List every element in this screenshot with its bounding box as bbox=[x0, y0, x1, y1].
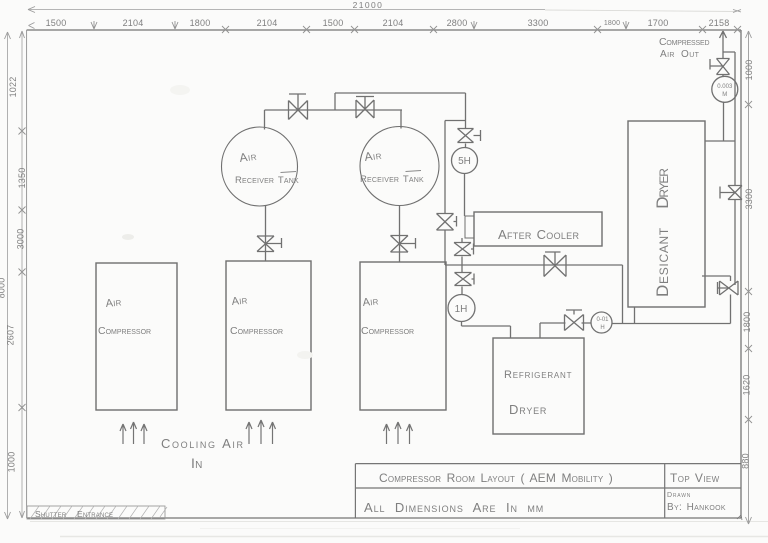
svg-text:1000: 1000 bbox=[744, 60, 754, 81]
svg-text:Air: Air bbox=[363, 148, 382, 164]
svg-text:Air Out: Air Out bbox=[660, 49, 700, 60]
svg-text:By: Hankook: By: Hankook bbox=[667, 502, 726, 513]
svg-text:Dryer: Dryer bbox=[653, 168, 672, 209]
svg-text:1H: 1H bbox=[455, 304, 468, 315]
svg-text:2800: 2800 bbox=[447, 18, 468, 28]
svg-text:1700: 1700 bbox=[648, 18, 669, 28]
svg-text:880: 880 bbox=[741, 453, 751, 469]
svg-text:Drawn: Drawn bbox=[667, 492, 691, 499]
svg-text:After Cooler: After Cooler bbox=[498, 227, 579, 242]
svg-text:3300: 3300 bbox=[744, 189, 754, 210]
svg-text:Air: Air bbox=[105, 296, 122, 310]
svg-text:Compressor: Compressor bbox=[98, 325, 151, 337]
svg-text:1500: 1500 bbox=[46, 18, 67, 28]
svg-text:Desicant: Desicant bbox=[653, 227, 672, 297]
svg-text:2104: 2104 bbox=[257, 18, 278, 28]
svg-text:2607: 2607 bbox=[6, 325, 16, 346]
svg-text:Compressed: Compressed bbox=[659, 36, 709, 48]
svg-text:8000: 8000 bbox=[0, 278, 7, 299]
svg-text:2104: 2104 bbox=[383, 18, 404, 28]
svg-text:Air: Air bbox=[238, 149, 257, 165]
svg-text:2104: 2104 bbox=[123, 18, 144, 28]
svg-text:Receiver Tank: Receiver Tank bbox=[235, 175, 299, 186]
svg-text:1620: 1620 bbox=[742, 375, 752, 396]
svg-text:Air: Air bbox=[231, 294, 248, 308]
svg-text:Refrigerant: Refrigerant bbox=[504, 369, 572, 381]
svg-text:0-01: 0-01 bbox=[596, 317, 609, 323]
svg-text:Cooling Air: Cooling Air bbox=[161, 436, 245, 451]
svg-text:Top View: Top View bbox=[670, 471, 720, 485]
svg-text:0.003: 0.003 bbox=[717, 84, 733, 90]
svg-text:In: In bbox=[191, 455, 203, 471]
svg-text:1000: 1000 bbox=[7, 452, 17, 473]
svg-text:21000: 21000 bbox=[353, 0, 384, 10]
svg-text:Receiver Tank: Receiver Tank bbox=[360, 174, 424, 185]
svg-text:2158: 2158 bbox=[709, 18, 730, 28]
svg-text:3300: 3300 bbox=[528, 18, 549, 28]
svg-text:Air: Air bbox=[362, 295, 379, 309]
svg-text:1350: 1350 bbox=[17, 168, 27, 189]
svg-text:Compressor: Compressor bbox=[230, 325, 283, 337]
svg-text:Shutter Entrance: Shutter Entrance bbox=[35, 509, 113, 519]
svg-text:3000: 3000 bbox=[16, 229, 26, 250]
svg-text:M: M bbox=[722, 92, 727, 98]
svg-text:5H: 5H bbox=[458, 156, 471, 167]
svg-text:H: H bbox=[600, 325, 604, 331]
svg-text:1800: 1800 bbox=[190, 18, 211, 28]
svg-text:1022: 1022 bbox=[8, 77, 18, 98]
svg-text:1800: 1800 bbox=[742, 312, 752, 333]
svg-text:Compressor Room Layout ( AEM M: Compressor Room Layout ( AEM Mobility ) bbox=[379, 471, 613, 485]
svg-text:Dryer: Dryer bbox=[509, 402, 547, 417]
svg-text:Compressor: Compressor bbox=[361, 325, 414, 337]
svg-text:All Dimensions Are In mm: All Dimensions Are In mm bbox=[364, 500, 544, 515]
svg-text:1800: 1800 bbox=[604, 20, 620, 27]
svg-text:1500: 1500 bbox=[323, 18, 344, 28]
